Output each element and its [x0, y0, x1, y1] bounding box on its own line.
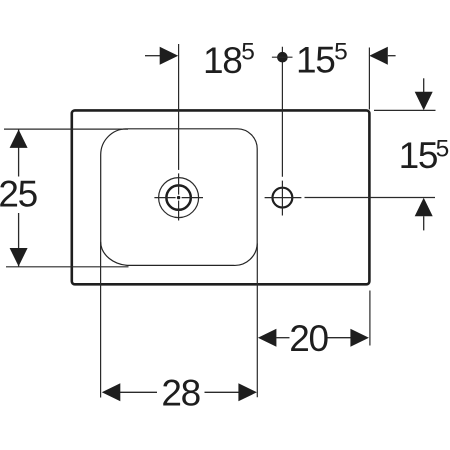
- bottom dim 20 arrow left: [258, 329, 277, 347]
- top dot crosshair: [272, 56, 293, 58]
- top dim separator dot: [277, 52, 288, 63]
- tap centerline vertical: [281, 47, 283, 177]
- bottom dim 20 line left: [276, 337, 289, 339]
- right edge extension vertical bottom: [369, 291, 371, 346]
- left dim line upper: [18, 129, 20, 176]
- left dim ext line bottom: [6, 266, 129, 268]
- right edge extension vertical top: [368, 48, 370, 110]
- svg-text:5: 5: [241, 39, 254, 66]
- top dim 18.5 arrow right: [160, 47, 179, 65]
- top dim 18.5 tail line: [145, 55, 160, 57]
- drain crosshair horizontal: [154, 197, 175, 199]
- drain outer circle: [159, 178, 199, 218]
- svg-text:5: 5: [436, 135, 449, 162]
- right dim tail above: [423, 78, 425, 92]
- bottom dim 28 arrow right: [238, 383, 257, 401]
- bottom dim 20 arrow right: [350, 329, 369, 347]
- right dim arrow up: [415, 198, 433, 216]
- svg-text:15: 15: [399, 135, 438, 176]
- right dim tail below: [423, 216, 425, 230]
- tap hole circle: [273, 188, 293, 208]
- bottom dim 20 line right: [327, 337, 351, 339]
- right dim arrow down: [415, 92, 433, 110]
- left dim arrow down: [10, 248, 28, 266]
- tap crosshair horizontal: [265, 197, 302, 199]
- right dim ext line top: [374, 109, 436, 111]
- bottom dim 28 line left: [120, 391, 157, 393]
- bottom dim 28 arrow left: [102, 383, 121, 401]
- bottom dim 28 line right: [205, 391, 240, 393]
- drain centerline vertical: [178, 44, 180, 170]
- top dim 15.5 tail line: [388, 55, 396, 57]
- drain center dot: [177, 196, 180, 199]
- inner bowl outline: [101, 129, 258, 266]
- svg-text:18: 18: [203, 40, 242, 81]
- left dim line lower: [18, 213, 20, 266]
- left dim arrow up: [10, 130, 28, 148]
- tap centerline extension right: [305, 197, 436, 199]
- washbasin outer outline: [72, 110, 370, 284]
- svg-text:15: 15: [296, 40, 335, 81]
- bowl left extension vertical: [100, 242, 102, 398]
- left dim ext line top: [4, 128, 128, 130]
- svg-text:5: 5: [334, 39, 347, 66]
- drain inner ring: [166, 185, 190, 209]
- svg-text:25: 25: [0, 174, 38, 215]
- svg-text:28: 28: [161, 373, 200, 414]
- svg-text:20: 20: [289, 318, 328, 359]
- bowl right extension vertical: [256, 244, 258, 398]
- top dim 15.5 arrow left: [369, 47, 388, 65]
